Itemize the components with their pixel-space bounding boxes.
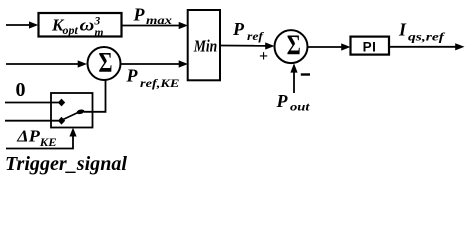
block Min [188,10,220,80]
svg-text:+: + [259,48,268,65]
switch arm from bottom terminal to common pole [63,113,78,120]
svg-text:P: P [276,91,289,111]
svg-text:opt: opt [63,25,79,37]
svg-text:Σ: Σ [99,48,113,79]
wire: switch output to S1 (right then up) [84,80,106,112]
wire: Iqs,ref output arrow [389,43,465,50]
svg-text:out: out [290,100,310,114]
wire: Pout feedback arrow up into S2 [290,63,297,93]
svg-text:PI: PI [363,39,377,54]
minus sign at S2 [301,73,310,75]
switch input terminal diamond top [58,99,65,107]
plus sign at S2 [259,48,268,65]
svg-text:3: 3 [94,16,101,28]
svg-text:max: max [146,13,172,27]
switch input terminal diamond bottom [58,117,65,125]
svg-text:P: P [126,66,139,86]
svg-text:ref: ref [247,29,264,43]
svg-text:0: 0 [16,79,26,101]
svg-text:KE: KE [39,137,57,149]
label Pref,KE [126,66,180,91]
switch box [51,93,93,128]
label Pmax [133,5,173,28]
svg-text:Min: Min [193,37,217,56]
svg-text:ΔP: ΔP [16,127,40,146]
svg-text:Σ: Σ [287,31,301,62]
svg-text:P: P [133,5,146,25]
svg-text:m: m [95,27,104,39]
svg-text:P: P [232,19,245,39]
summing junction S2 [275,30,308,63]
label Iqs,ref [398,20,445,44]
switch common pole ellipse [76,109,85,115]
wire: from S2 to PI block [308,43,351,50]
label Pref [232,19,264,43]
wire: speed input into Kopt block [6,21,38,28]
svg-text:Trigger_signal: Trigger_signal [5,153,127,175]
wire: delta PKE input line into switch [5,120,59,122]
svg-text:ref,KE: ref,KE [140,76,180,90]
wire: Pmax from Kopt block to Min block [122,22,189,29]
wire: trigger signal line with up arrow into switch [6,128,77,149]
svg-text:I: I [398,20,407,40]
block PI controller [351,37,390,55]
wire: Pref,KE from S1 to Min block [121,60,189,67]
label Trigger_signal [5,153,127,175]
svg-text:qs,ref: qs,ref [408,30,445,44]
wire: input into summing junction S1 [6,60,87,67]
svg-text:ω: ω [80,16,95,35]
wire: zero input line into switch [5,102,59,104]
label 0 (zero input to switch) [16,79,26,101]
label delta PKE [16,127,57,149]
label Pout [276,91,311,114]
block Kopt*wm^3 (MPPT gain) [39,13,122,39]
wire: Pref from Min to summing junction S2, plus sign [220,42,275,49]
summing junction S1 [88,47,121,80]
